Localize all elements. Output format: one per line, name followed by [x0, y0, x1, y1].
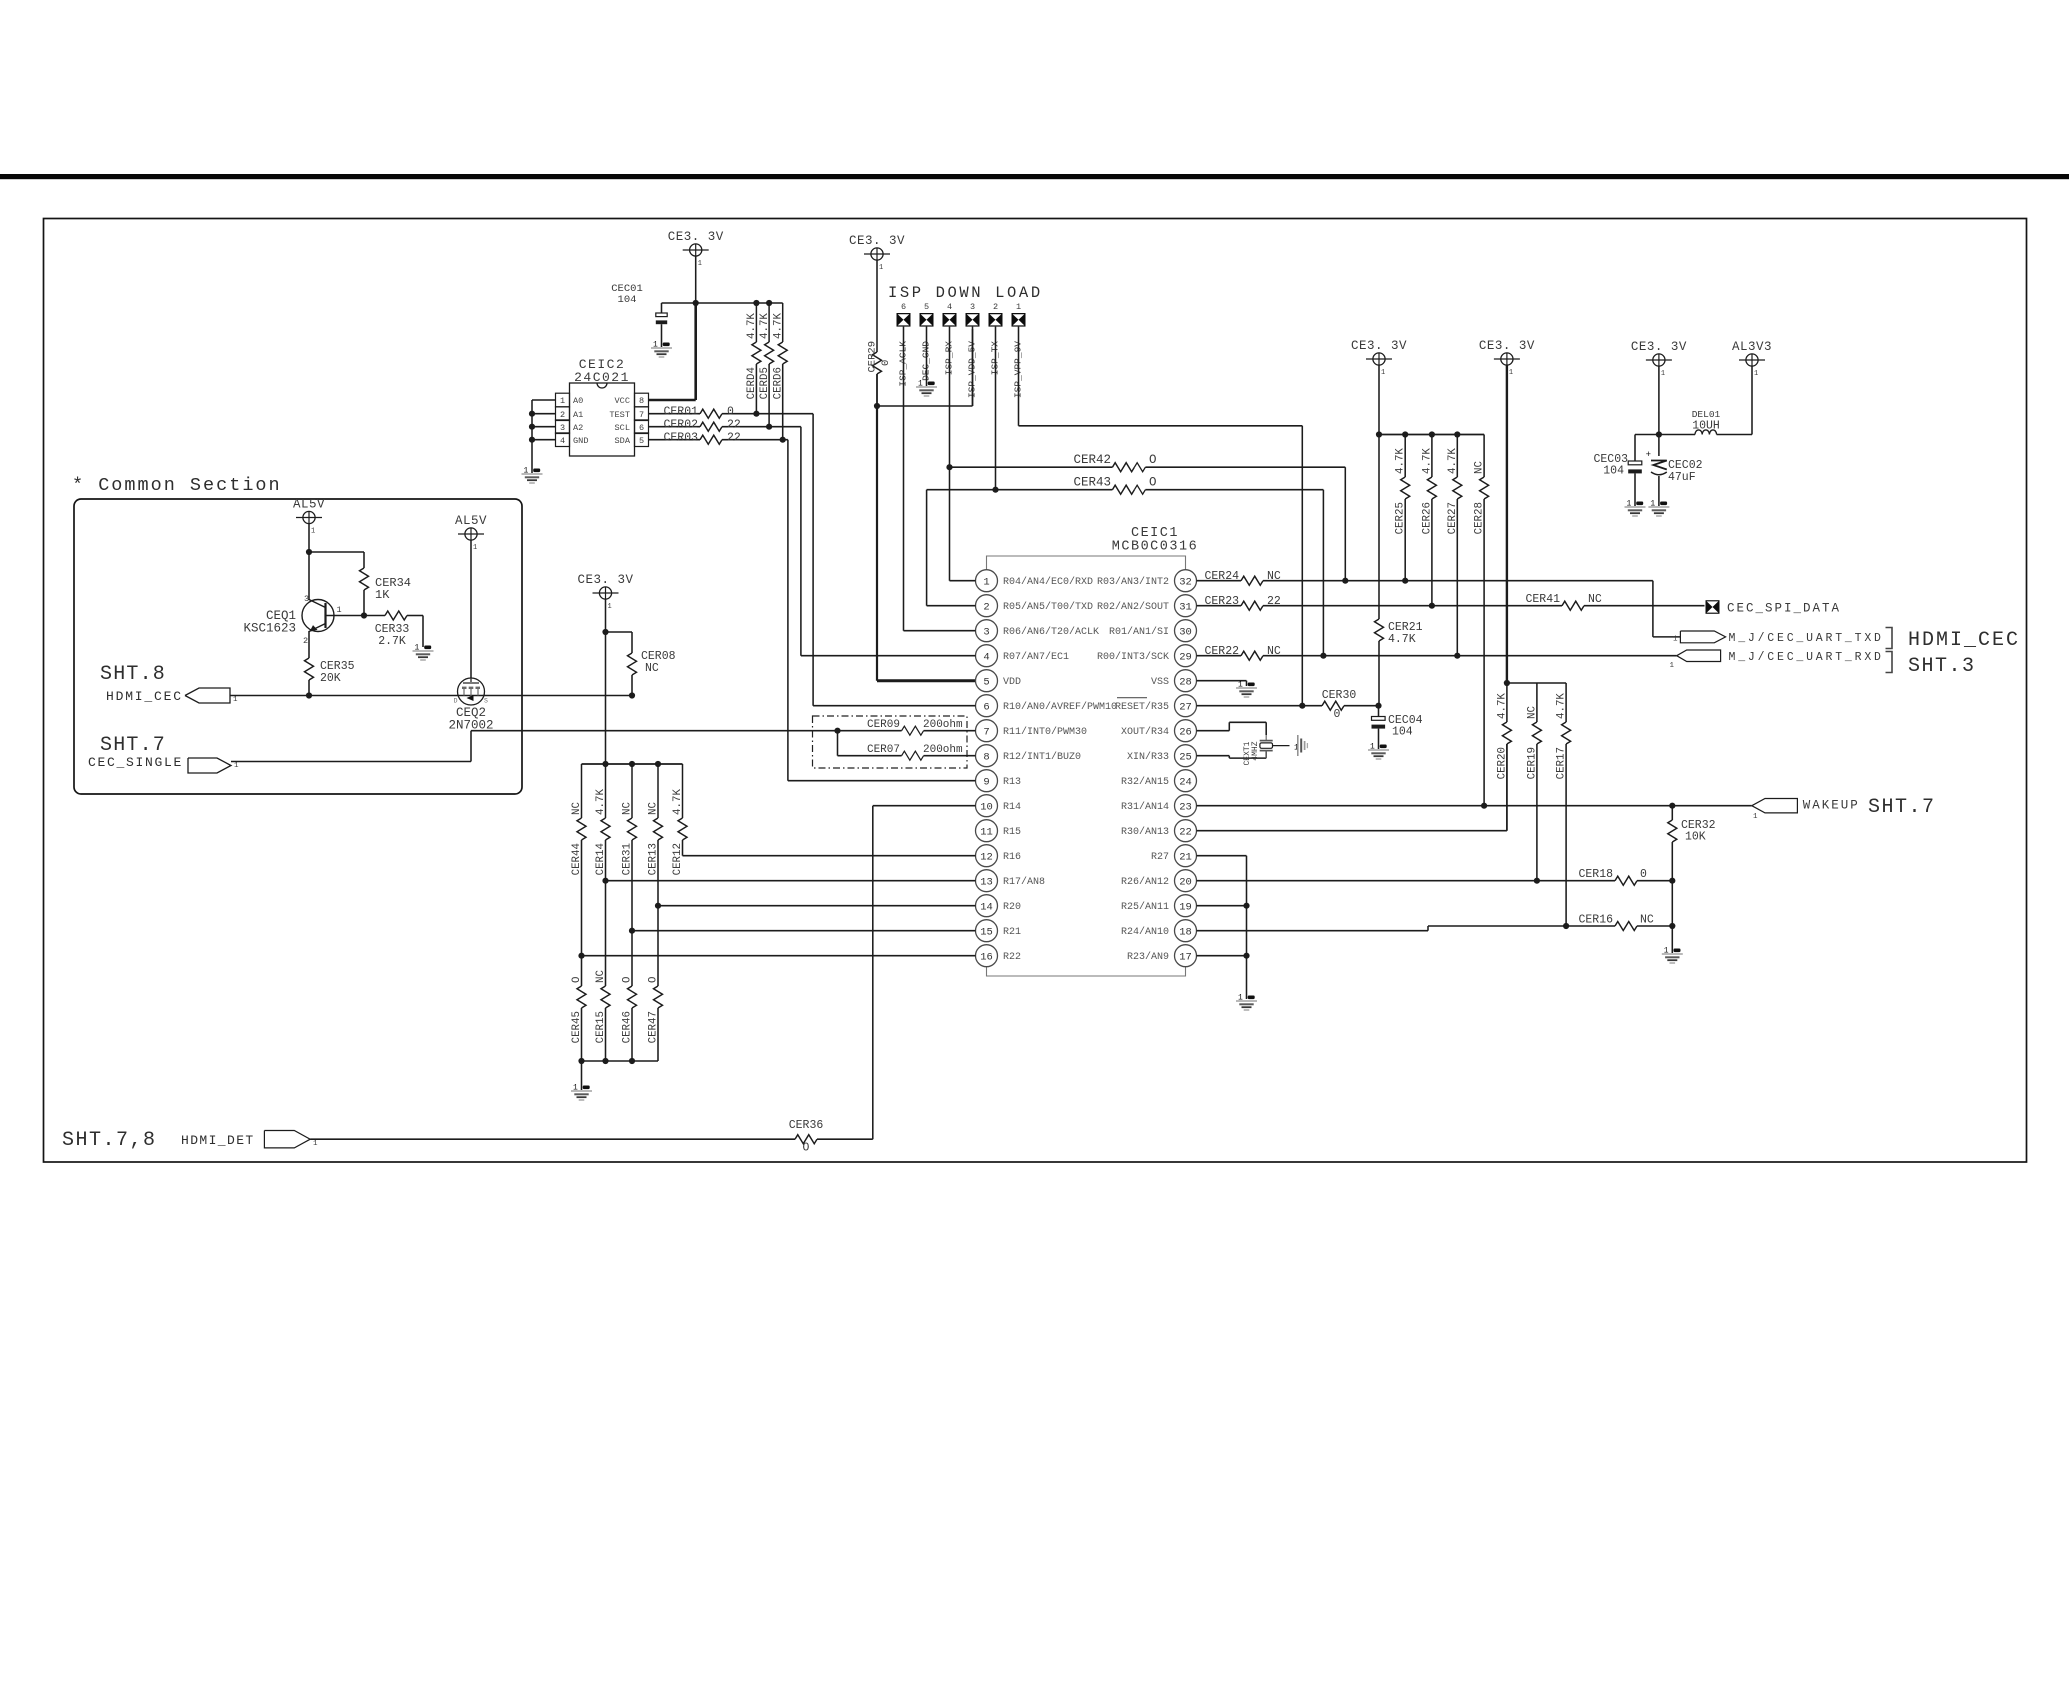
- pin 2 (R05/AN5/T00/TXD): [976, 595, 998, 617]
- svg-text:CE3. 3V: CE3. 3V: [1351, 339, 1407, 353]
- wire CER12 to pin12: [682, 840, 684, 856]
- svg-text:17: 17: [1179, 951, 1192, 963]
- svg-text:CER16: CER16: [1578, 914, 1613, 927]
- pin 17 (R23/AN9): [1175, 945, 1197, 967]
- svg-text:NC: NC: [1474, 461, 1486, 474]
- ground (CER33): [424, 646, 431, 650]
- pin 15 (R21): [976, 920, 998, 942]
- resistor CER01 0: [649, 413, 701, 415]
- svg-text:1K: 1K: [375, 588, 390, 602]
- svg-text:O: O: [622, 977, 634, 983]
- inductor DEL01 10UH: [1659, 434, 1695, 436]
- svg-text:NC: NC: [622, 802, 634, 815]
- svg-text:R02/AN2/SOUT: R02/AN2/SOUT: [1097, 601, 1169, 613]
- wire pin1 stub: [950, 580, 976, 582]
- node CER19/pin20: [1534, 878, 1540, 884]
- svg-text:R00/INT3/SCK: R00/INT3/SCK: [1097, 651, 1169, 663]
- node bus CER31: [629, 761, 635, 767]
- sheet border frame: [44, 219, 2027, 1163]
- resistor CER46 O: [631, 931, 633, 986]
- svg-text:4.7K: 4.7K: [746, 313, 758, 339]
- svg-text:0: 0: [880, 360, 892, 366]
- svg-text:TEST: TEST: [609, 410, 630, 420]
- svg-text:R25/AN11: R25/AN11: [1121, 901, 1169, 913]
- svg-text:1: 1: [234, 762, 239, 770]
- node CER44/pin16: [578, 953, 584, 959]
- node CER16/CER32: [1669, 923, 1675, 929]
- node CER25/pin32: [1402, 578, 1408, 584]
- bracket RXD: [1886, 652, 1893, 673]
- wire VCC thick: [649, 399, 696, 402]
- wire CER03 to pin9: [787, 440, 789, 781]
- svg-text:CE3. 3V: CE3. 3V: [577, 573, 633, 587]
- transistor CEQ2 2N7002: [458, 678, 485, 705]
- svg-text:4.7K: 4.7K: [1395, 448, 1407, 474]
- node bus CERD5: [766, 300, 772, 306]
- svg-text:HDMI_CEC: HDMI_CEC: [1908, 629, 2020, 652]
- svg-text:8: 8: [983, 751, 989, 763]
- svg-text:CER46: CER46: [622, 1011, 634, 1043]
- wire pin6 stub: [813, 705, 975, 707]
- pin 10 (R14): [976, 795, 998, 817]
- wire collector up: [308, 552, 310, 600]
- svg-text:47uF: 47uF: [1668, 471, 1696, 484]
- wire CER01 to pin6: [812, 414, 814, 706]
- pin 1 (R04/AN4/EC0/RXD): [976, 570, 998, 592]
- svg-text:0: 0: [1334, 708, 1341, 721]
- svg-text:11: 11: [980, 826, 993, 838]
- pin 32 (R03/AN3/INT2): [1175, 570, 1197, 592]
- wire pin20 row: [1197, 880, 1616, 882]
- svg-text:1: 1: [608, 603, 612, 611]
- node CER35 bottom: [306, 692, 312, 698]
- svg-text:CE3. 3V: CE3. 3V: [1479, 339, 1535, 353]
- capacitor CEC04 104: [1378, 706, 1380, 717]
- svg-text:26: 26: [1179, 726, 1192, 738]
- svg-text:CER02: CER02: [663, 419, 698, 432]
- node bus CERD4: [753, 300, 759, 306]
- wire pin18 row (jog): [1197, 930, 1429, 932]
- svg-text:RESET/R35: RESET/R35: [1115, 701, 1169, 713]
- svg-text:23: 23: [1179, 801, 1192, 813]
- ground (CEC04): [1380, 745, 1387, 749]
- svg-text:3: 3: [970, 302, 975, 312]
- resistor CER15 NC: [605, 881, 607, 986]
- svg-text:NC: NC: [648, 802, 660, 815]
- top title bar: [0, 174, 2069, 179]
- resistor CER32 10K: [1671, 806, 1673, 820]
- svg-text:2: 2: [993, 302, 998, 312]
- wire pin23 row (WAKEUP net): [1197, 805, 1752, 807]
- svg-text:GND: GND: [573, 436, 588, 446]
- svg-text:AL3V3: AL3V3: [1732, 340, 1772, 354]
- wire ISP_ACLK to pin3: [903, 327, 905, 631]
- svg-text:CER30: CER30: [1322, 689, 1357, 702]
- node CER29/ISP_VDD: [874, 403, 880, 409]
- svg-text:4: 4: [947, 302, 952, 312]
- svg-text:D: D: [454, 698, 458, 705]
- wire CER14 to pin13: [605, 840, 607, 881]
- wire CER43 to pin29: [1322, 490, 1324, 656]
- node ISP_RX/CER42: [946, 464, 952, 470]
- wire pin32 to TXD port: [1652, 581, 1654, 637]
- svg-text:CER19: CER19: [1526, 747, 1538, 779]
- pin 3 (R06/AN6/T20/ACLK): [976, 620, 998, 642]
- ground (DEC_GND): [926, 327, 928, 386]
- pin 18 (R24/AN10): [1175, 920, 1197, 942]
- node CERD6/CER03: [780, 437, 786, 443]
- svg-text:1: 1: [1669, 662, 1674, 670]
- svg-text:R22: R22: [1003, 952, 1021, 963]
- node base junction: [361, 612, 367, 618]
- ground (VSS): [1248, 683, 1255, 687]
- resistor CER02 22: [649, 426, 701, 428]
- node CER17/CER16: [1563, 923, 1569, 929]
- node CER18/CER32: [1669, 878, 1675, 884]
- resistor CER13 NC: [657, 764, 659, 818]
- power CE3.3V (CER20 bank): [1501, 353, 1513, 365]
- svg-text:22: 22: [727, 432, 741, 445]
- svg-text:6: 6: [639, 423, 644, 433]
- node bus CER26: [1429, 431, 1435, 437]
- crystal CEXT1 4MHZ: [1265, 735, 1267, 741]
- svg-text:CER24: CER24: [1204, 570, 1239, 583]
- svg-text:104: 104: [618, 294, 637, 306]
- pin 4 (R07/AN7/EC1): [976, 645, 998, 667]
- resistor CER42 0: [950, 466, 1113, 468]
- wire CE3.3V down thick: [1506, 365, 1508, 683]
- node CER27/pin29: [1454, 653, 1460, 659]
- resistor CER31 NC: [631, 764, 633, 818]
- svg-text:10K: 10K: [1685, 831, 1706, 844]
- svg-text:6: 6: [983, 701, 989, 713]
- power CE3.3V (CER08 bank): [599, 587, 611, 599]
- svg-text:R31/AN14: R31/AN14: [1121, 801, 1169, 813]
- svg-text:CER25: CER25: [1395, 502, 1407, 534]
- wire CE3.3V down: [695, 256, 697, 303]
- resistor CER47 O: [657, 906, 659, 986]
- node group bus/CE3.3V: [602, 761, 608, 767]
- svg-text:16: 16: [980, 951, 993, 963]
- resistor CER29 0: [876, 260, 878, 352]
- power AL3V3: [1746, 354, 1758, 366]
- svg-text:4.7K: 4.7K: [595, 789, 607, 815]
- svg-text:25: 25: [1179, 751, 1192, 763]
- svg-text:4.7K: 4.7K: [759, 313, 771, 339]
- node GND pin: [529, 437, 535, 443]
- resistor CER23 22: [1197, 605, 1242, 607]
- svg-text:12: 12: [980, 851, 993, 863]
- connector CEC_SPI_DATA: [1706, 600, 1720, 614]
- node CER32/pin23: [1669, 803, 1675, 809]
- wire CER29 to VDD (thick): [876, 406, 878, 681]
- resistor CER07 200ohm: [837, 731, 839, 756]
- svg-text:200ohm: 200ohm: [923, 744, 963, 756]
- svg-text:SHT.8: SHT.8: [100, 663, 166, 686]
- svg-text:200ohm: 200ohm: [923, 719, 963, 731]
- svg-text:R20: R20: [1003, 902, 1021, 913]
- svg-text:NC: NC: [1526, 706, 1538, 719]
- resistor CER20 4.7K: [1506, 683, 1508, 722]
- wire HDMI_DET net: [310, 1138, 795, 1140]
- svg-text:CERD5: CERD5: [759, 367, 771, 399]
- wire AL5V down to junction: [308, 524, 310, 552]
- svg-text:SHT.7: SHT.7: [100, 734, 166, 757]
- node CER13/pin14: [655, 903, 661, 909]
- svg-text:24: 24: [1179, 776, 1192, 788]
- pin 23 (R31/AN14): [1175, 795, 1197, 817]
- svg-text:+: +: [1646, 450, 1651, 460]
- wire CER31 to pin15: [631, 840, 633, 931]
- svg-text:DEL01: DEL01: [1692, 409, 1721, 420]
- wire ISP_VDD_5V link: [877, 405, 973, 407]
- svg-text:1: 1: [473, 544, 477, 552]
- svg-text:4: 4: [560, 436, 565, 446]
- svg-text:A1: A1: [573, 410, 583, 420]
- svg-text:R05/AN5/T00/TXD: R05/AN5/T00/TXD: [1003, 601, 1093, 613]
- wire pin28 VSS to ground: [1197, 680, 1247, 682]
- wire junction to CER34 top: [309, 551, 364, 553]
- svg-text:R32/AN15: R32/AN15: [1121, 776, 1169, 788]
- svg-text:NC: NC: [571, 802, 583, 815]
- resistor CER12 4.7K: [682, 764, 684, 818]
- capacitor CEC02 47uF (electrolytic): [1658, 435, 1660, 457]
- wire group bus: [582, 763, 683, 765]
- wire pin22 row: [1197, 830, 1507, 832]
- pin 29 (R00/INT3/SCK): [1175, 645, 1197, 667]
- resistor CER44 NC: [581, 764, 583, 818]
- node VPP/RESET: [1299, 703, 1305, 709]
- ground (EEPROM): [533, 469, 540, 473]
- port M_J/CEC_UART_RXD: [1677, 650, 1721, 662]
- svg-text:CE3. 3V: CE3. 3V: [1631, 340, 1687, 354]
- svg-text:R01/AN1/SI: R01/AN1/SI: [1109, 626, 1169, 638]
- svg-text:30: 30: [1179, 626, 1192, 638]
- ground (CEC01): [663, 343, 670, 347]
- resistor CER14 4.7K: [605, 764, 607, 818]
- node bus CER25: [1402, 431, 1408, 437]
- svg-text:2.7K: 2.7K: [378, 635, 406, 648]
- wire CER43 to pin2: [926, 490, 928, 606]
- pin 11 (R15): [976, 820, 998, 842]
- ground (CEC02): [1660, 502, 1667, 506]
- node CERD4/CER01: [753, 411, 759, 417]
- svg-text:27: 27: [1179, 701, 1192, 713]
- port WAKEUP: [1752, 799, 1798, 813]
- resistor CER21 4.7K: [1378, 435, 1380, 620]
- node pin19/gnd: [1243, 903, 1249, 909]
- svg-text:R04/AN4/EC0/RXD: R04/AN4/EC0/RXD: [1003, 576, 1093, 588]
- svg-text:R11/INT0/PWM30: R11/INT0/PWM30: [1003, 726, 1087, 738]
- svg-text:28: 28: [1179, 676, 1192, 688]
- svg-text:R12/INT1/BUZ0: R12/INT1/BUZ0: [1003, 751, 1081, 763]
- resistor CER24 NC: [1197, 580, 1242, 582]
- svg-text:O: O: [1149, 476, 1157, 490]
- svg-text:1: 1: [311, 528, 315, 536]
- Common Section box: [74, 499, 522, 794]
- wire VDD row thick: [877, 679, 976, 682]
- pin 14 (R20): [976, 895, 998, 917]
- svg-text:2: 2: [303, 636, 308, 646]
- power AL5V (CEQ1 supply): [303, 511, 315, 523]
- svg-text:* Common Section: * Common Section: [72, 475, 282, 496]
- svg-text:SCL: SCL: [615, 423, 630, 433]
- pin 25 (XIN/R33): [1175, 745, 1197, 767]
- svg-text:CER03: CER03: [663, 432, 698, 445]
- resistor CER34 1K: [360, 568, 369, 590]
- wire pin3 stub: [904, 630, 976, 632]
- wire ISP_RX down: [949, 327, 951, 581]
- wire pin27 RESET row: [1197, 705, 1323, 707]
- svg-text:R23/AN9: R23/AN9: [1127, 951, 1169, 963]
- svg-text:VCC: VCC: [615, 396, 630, 406]
- wire CER02 to pin4: [800, 427, 802, 656]
- svg-text:CER47: CER47: [648, 1011, 660, 1043]
- svg-text:CER27: CER27: [1447, 502, 1459, 534]
- svg-text:XOUT/R34: XOUT/R34: [1121, 726, 1169, 738]
- svg-text:CEC_SINGLE: CEC_SINGLE: [88, 755, 183, 770]
- svg-text:AL5V: AL5V: [293, 498, 325, 512]
- svg-text:CER36: CER36: [789, 1119, 824, 1132]
- svg-text:CER29: CER29: [867, 341, 879, 373]
- svg-text:CER45: CER45: [571, 1011, 583, 1043]
- wire bank bus: [1507, 682, 1566, 684]
- wire CER36 to pin10: [872, 806, 874, 1139]
- svg-text:CER26: CER26: [1421, 502, 1433, 534]
- svg-text:5: 5: [924, 302, 929, 312]
- wire EEPROM left pins bus: [532, 399, 556, 401]
- svg-text:13: 13: [980, 876, 993, 888]
- wire emitter down: [308, 631, 310, 658]
- svg-text:8: 8: [639, 396, 644, 406]
- svg-text:4.7K: 4.7K: [1496, 693, 1508, 719]
- resistor CER17 4.7K: [1565, 683, 1567, 722]
- node CER26/pin31: [1429, 603, 1435, 609]
- svg-text:3: 3: [983, 626, 989, 638]
- resistor CER28 NC: [1483, 435, 1485, 478]
- svg-text:SHT.3: SHT.3: [1908, 655, 1976, 678]
- svg-text:R06/AN6/T20/ACLK: R06/AN6/T20/ACLK: [1003, 626, 1099, 638]
- svg-text:A2: A2: [573, 423, 583, 433]
- svg-text:O: O: [648, 977, 660, 983]
- svg-text:1: 1: [337, 605, 342, 615]
- svg-text:NC: NC: [645, 662, 659, 675]
- svg-text:1: 1: [233, 696, 238, 704]
- svg-text:R13: R13: [1003, 777, 1021, 788]
- svg-text:1: 1: [1381, 369, 1385, 377]
- wire pin4 stub: [801, 655, 976, 657]
- resistor CER43 O: [927, 489, 1113, 491]
- pin 27 (RESET/R35): [1175, 695, 1197, 717]
- pin27 RESET overline: [1117, 697, 1147, 699]
- pin 26 (XOUT/R34): [1175, 720, 1197, 742]
- pin 8 (R12/INT1/BUZ0): [976, 745, 998, 767]
- wire AL5V to CEQ2: [470, 540, 472, 678]
- node CER42/pin32: [1342, 578, 1348, 584]
- svg-text:SDA: SDA: [615, 436, 631, 446]
- svg-text:O: O: [803, 1142, 810, 1155]
- svg-text:CER20: CER20: [1496, 747, 1508, 779]
- svg-text:20K: 20K: [320, 672, 341, 685]
- svg-text:1: 1: [1016, 302, 1021, 312]
- svg-text:14: 14: [980, 901, 993, 913]
- wire pin9 stub: [788, 780, 976, 782]
- svg-text:4.7K: 4.7K: [1388, 633, 1416, 646]
- svg-text:4.7K: 4.7K: [672, 789, 684, 815]
- pin 5 (VDD): [976, 670, 998, 692]
- wire pin25 XIN: [1197, 755, 1230, 757]
- resistor CER35 20K: [305, 658, 314, 680]
- node CER28/pin23: [1481, 803, 1487, 809]
- node filter junction: [1656, 431, 1662, 437]
- power CE3.3V (filter): [1653, 354, 1665, 366]
- svg-text:22: 22: [727, 419, 741, 432]
- svg-text:32: 32: [1179, 576, 1192, 588]
- svg-text:4.7K: 4.7K: [773, 313, 785, 339]
- capacitor CEC01 104: [661, 303, 663, 313]
- svg-text:4.7K: 4.7K: [1421, 448, 1433, 474]
- svg-text:HDMI_CEC: HDMI_CEC: [106, 689, 183, 704]
- svg-text:A0: A0: [573, 396, 583, 406]
- svg-text:CEC_SPI_DATA: CEC_SPI_DATA: [1727, 602, 1841, 616]
- svg-text:HDMI_DET: HDMI_DET: [181, 1133, 255, 1148]
- svg-text:0: 0: [727, 406, 734, 419]
- svg-text:6: 6: [901, 302, 906, 312]
- wire HDMI_CEC net: [230, 695, 632, 697]
- svg-text:CER09: CER09: [867, 719, 900, 731]
- ground (pulldown group): [583, 1086, 590, 1090]
- resistor CER08 NC: [606, 631, 633, 633]
- node junction AL5V/collector/CER34: [306, 549, 312, 555]
- svg-text:1: 1: [983, 576, 989, 588]
- svg-text:VDD: VDD: [1003, 677, 1021, 688]
- svg-text:VSS: VSS: [1151, 677, 1169, 688]
- svg-text:4.7K: 4.7K: [1447, 448, 1459, 474]
- resistor CER45 O: [581, 956, 583, 986]
- node bottom CER15: [602, 1058, 608, 1064]
- pin 30 (R01/AN1/SI): [1175, 620, 1197, 642]
- wire pin17 stub: [1197, 955, 1247, 957]
- wire CER13 to pin14: [657, 840, 659, 906]
- svg-text:1: 1: [879, 264, 883, 272]
- node CER20 bank: [1504, 680, 1510, 686]
- svg-text:R07/AN7/EC1: R07/AN7/EC1: [1003, 651, 1069, 663]
- pin 28 (VSS): [1175, 670, 1197, 692]
- svg-text:CER42: CER42: [1073, 453, 1111, 467]
- svg-text:15: 15: [980, 926, 993, 938]
- ground (CEC03): [1636, 502, 1643, 506]
- svg-text:CER17: CER17: [1556, 747, 1568, 779]
- node CER31/pin15: [629, 928, 635, 934]
- svg-text:22: 22: [1179, 826, 1192, 838]
- svg-text:CE3. 3V: CE3. 3V: [668, 230, 724, 244]
- node CER14/pin13: [602, 878, 608, 884]
- node bottom CER46: [629, 1058, 635, 1064]
- wire pin19 stub: [1197, 905, 1247, 907]
- svg-text:1: 1: [1661, 370, 1665, 378]
- svg-text:CER41: CER41: [1525, 593, 1560, 606]
- node VCC bus junction: [693, 300, 699, 306]
- svg-text:R10/AN0/AVREF/PWM10: R10/AN0/AVREF/PWM10: [1003, 701, 1117, 713]
- node pin17/gnd: [1243, 953, 1249, 959]
- svg-text:NC: NC: [1588, 593, 1602, 606]
- ground (pins 21/19/17): [1248, 996, 1255, 1000]
- wire pin21 to ground: [1197, 855, 1247, 857]
- svg-text:M_J/CEC_UART_RXD: M_J/CEC_UART_RXD: [1729, 651, 1884, 664]
- svg-text:CER18: CER18: [1578, 868, 1613, 881]
- node CER43/pin29: [1320, 653, 1326, 659]
- svg-text:NC: NC: [595, 970, 607, 983]
